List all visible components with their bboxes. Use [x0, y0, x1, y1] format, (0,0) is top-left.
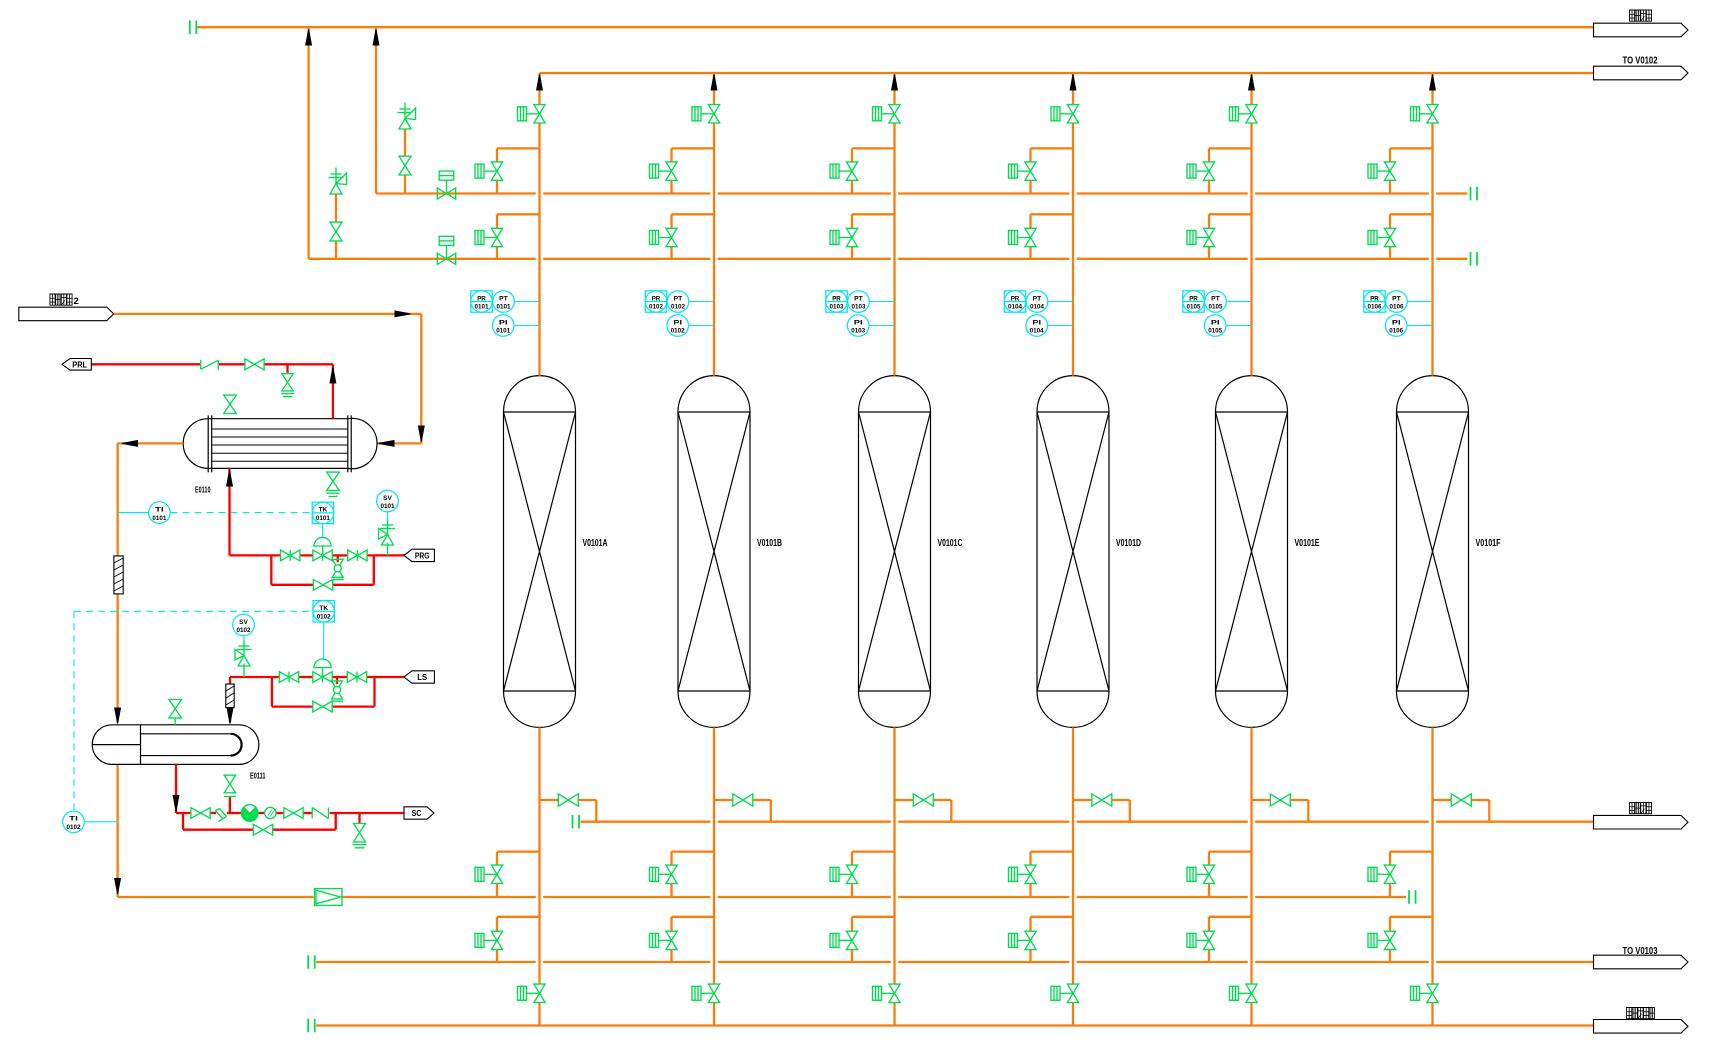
vent stub on PRL line: [286, 364, 288, 373]
svg-text:PR: PR: [1189, 295, 1198, 302]
check valve on PRL line: [200, 360, 202, 370]
vent branch valve vessel E: [1252, 799, 1271, 801]
flange end header2: [1470, 252, 1472, 265]
adsorber vessel V0101C: [859, 376, 931, 728]
pressure recorder PR 0106: [1364, 291, 1385, 312]
flow arrow into E0110: [227, 471, 233, 487]
heat exchanger E0111 shell: [112, 725, 239, 765]
program valve KV0105A (riser): [1230, 107, 1239, 121]
program valve KV0104A (riser): [1051, 107, 1060, 121]
instrument connection TK0101 to valve: [322, 524, 324, 537]
flow arrow into E0111: [227, 708, 233, 724]
valve SC-1: [191, 808, 201, 819]
branch to header1 vessel F: [1390, 147, 1433, 149]
adsorber vessel V0101E: [1216, 376, 1288, 728]
branch to header1 vessel B: [672, 147, 715, 149]
svg-text:0102: 0102: [317, 614, 331, 621]
vent riser from header2: [307, 27, 309, 259]
branch to feed header vessel E: [1209, 850, 1252, 852]
flow arrow down: [173, 796, 179, 812]
svg-text:PR: PR: [1011, 295, 1020, 302]
check valve SC: [311, 808, 313, 819]
downcomer vessel B: [713, 727, 715, 984]
svg-text:LS: LS: [417, 672, 427, 682]
svg-text:0106: 0106: [1368, 304, 1382, 311]
pressure indicator PI 0101: [514, 325, 540, 327]
pressure indicator PI 0103: [869, 325, 895, 327]
TO V0102 product header: [540, 72, 1594, 74]
program valve KV0102F (vacuum): [692, 986, 701, 1000]
pressure transmitter PT 0103: [869, 301, 894, 303]
riser pipe vessel F: [1431, 73, 1433, 105]
signal line TK0102 (dashed) to TI0102: [74, 610, 313, 612]
steam trap: [241, 805, 258, 822]
svg-text:PT: PT: [1392, 295, 1401, 302]
flow arrow down: [418, 426, 424, 442]
pressure recorder PR 0103: [826, 291, 847, 312]
flow arrow: [115, 879, 121, 895]
program valve KV0104F (vacuum): [1051, 986, 1060, 1000]
downcomer vessel A: [538, 727, 540, 984]
svg-text:TO V0103: TO V0103: [1623, 945, 1658, 957]
svg-text:V0101A: V0101A: [583, 538, 608, 549]
flag 自空分塔2 (feed from air separation): [19, 307, 114, 321]
svg-text:PT: PT: [674, 295, 683, 302]
svg-text:0105: 0105: [1209, 304, 1223, 311]
isolation valve on PRL line: [245, 359, 255, 370]
sample valve on PRG line: [337, 555, 339, 562]
PSV stub on header1: [404, 129, 406, 156]
valve LS-2: [347, 672, 357, 683]
svg-text:0103: 0103: [852, 304, 866, 311]
svg-text:PI: PI: [673, 319, 682, 326]
svg-text:0105: 0105: [1187, 304, 1201, 311]
branch to feed header vessel A: [497, 850, 540, 852]
controller TK 0101: [312, 502, 333, 523]
vent branch valve vessel A: [540, 799, 559, 801]
controller TK 0102: [313, 601, 334, 622]
PRG line: [230, 554, 281, 556]
sample valve on LS line: [336, 677, 338, 684]
program valve KV0104C: [1009, 231, 1018, 245]
branch to V0103 header vessel D: [1031, 916, 1074, 918]
svg-text:0102: 0102: [671, 304, 685, 311]
flag TO V0102: [1594, 66, 1689, 80]
inline strainer on downline: [114, 556, 123, 594]
vent riser from header1: [375, 27, 377, 193]
vent stub with valve above SC line: [229, 797, 231, 813]
branch to feed header vessel C: [852, 850, 895, 852]
svg-text:E0110: E0110: [195, 485, 211, 495]
svg-text:0101: 0101: [475, 304, 489, 311]
feed line to E0110: [114, 313, 422, 315]
svg-text:PRL: PRL: [72, 359, 87, 369]
branch to header2 vessel C: [852, 213, 895, 215]
program valve KV0102C: [650, 231, 659, 245]
flow arrow: [122, 441, 138, 447]
vacuum return header: [307, 1019, 309, 1033]
vent branch valve vessel B: [714, 799, 733, 801]
svg-text:PI: PI: [1032, 319, 1041, 326]
flow arrow up: [306, 30, 312, 46]
svg-text:PI: PI: [854, 319, 863, 326]
program valve KV0105F (vacuum): [1230, 986, 1239, 1000]
inline strainer on LS drop: [226, 684, 234, 708]
SC condensate line: [176, 812, 191, 814]
valve LS-1: [279, 672, 289, 683]
svg-text:SV: SV: [239, 619, 248, 626]
program valve KV0102B: [650, 164, 659, 178]
svg-text:TK: TK: [319, 605, 328, 612]
E0110 vent valve (top): [224, 395, 237, 404]
svg-text:0104: 0104: [1030, 304, 1044, 311]
program valve KV0101C: [475, 231, 484, 245]
pressure recorder PR 0102: [645, 291, 666, 312]
pressure transmitter PT 0101: [514, 301, 539, 303]
bypass valve LS: [313, 701, 323, 712]
pressure transmitter PT 0105: [1226, 301, 1251, 303]
program valve KV0105D: [1187, 867, 1196, 881]
branch to feed header vessel F: [1390, 850, 1433, 852]
pressure recorder PR 0101: [471, 291, 492, 312]
branch to header2 vessel A: [497, 213, 540, 215]
relief valve SV0102 stub: [243, 664, 245, 678]
E0111 vent valve top: [169, 700, 182, 709]
E0111 tubesheet: [140, 725, 142, 765]
svg-text:0104: 0104: [1008, 304, 1022, 311]
svg-text:PR: PR: [1370, 295, 1379, 302]
temperature control valve TV0101: [313, 550, 323, 561]
program valve KV0103E: [830, 933, 839, 947]
riser pipe vessel A: [538, 73, 540, 105]
svg-text:0103: 0103: [851, 328, 865, 335]
program valve KV0103D: [830, 867, 839, 881]
svg-text:PR: PR: [477, 295, 486, 302]
signal to SV bubble: [243, 636, 245, 642]
equalization header 2: [309, 258, 536, 260]
program valve KV0105C: [1187, 231, 1196, 245]
branch to header2 vessel F: [1390, 213, 1433, 215]
equalization header 1: [376, 192, 536, 194]
temperature indicator TI 0101: [149, 502, 171, 524]
program valve KV0103B: [830, 164, 839, 178]
branch to V0103 header vessel F: [1390, 916, 1433, 918]
downcomer vessel F: [1431, 727, 1433, 984]
flag SC: [404, 807, 434, 819]
svg-text:0104: 0104: [1030, 328, 1044, 335]
branch to feed header vessel B: [672, 850, 715, 852]
svg-text:PR: PR: [652, 295, 661, 302]
svg-text:TO V0102: TO V0102: [1623, 55, 1658, 67]
flag PRL: [62, 359, 91, 371]
program valve KV0105E: [1187, 933, 1196, 947]
TI0101 tap line: [118, 512, 149, 514]
valve PRG-1: [281, 550, 291, 561]
branch to V0103 header vessel E: [1209, 916, 1252, 918]
pressure indicator PI 0102: [689, 325, 715, 327]
branch to V0103 header vessel B: [672, 916, 715, 918]
E0111 U-tube bundle: [141, 734, 242, 756]
flow arrow to V0102 header: [1249, 75, 1255, 91]
flag LS: [404, 671, 434, 683]
program valve KV0103F (vacuum): [873, 986, 882, 1000]
svg-text:PT: PT: [1033, 295, 1042, 302]
branch to feed header vessel D: [1031, 850, 1074, 852]
svg-text:0103: 0103: [830, 304, 844, 311]
svg-text:0102: 0102: [237, 627, 251, 634]
svg-text:E0111: E0111: [250, 771, 266, 781]
svg-text:PRG: PRG: [415, 550, 430, 560]
flag PRG: [404, 549, 434, 561]
isolation valve under PSV-2: [330, 222, 342, 231]
adsorber vessel V0101B: [678, 376, 750, 728]
top waste-gas vent header (to 废气排空): [189, 20, 191, 34]
svg-text:0101: 0101: [497, 304, 511, 311]
svg-text:0106: 0106: [1390, 304, 1404, 311]
pressure transmitter PT 0106: [1407, 301, 1432, 303]
bypass valve PRG: [313, 579, 323, 590]
feed header from E0111: [118, 896, 314, 898]
adsorber vessel V0101F: [1397, 376, 1469, 728]
svg-text:SV: SV: [383, 495, 392, 502]
flow arrow up: [373, 30, 379, 46]
svg-text:PI: PI: [1392, 319, 1401, 326]
relief valve PSV-1: [399, 119, 411, 130]
riser pipe vessel E: [1250, 73, 1252, 105]
E0110 tubesheets: [207, 415, 209, 472]
PRG bypass: [270, 555, 272, 584]
program valve KV0103A (riser): [873, 107, 882, 121]
controller TK 0102 connection: [323, 622, 325, 659]
svg-text:PR: PR: [832, 295, 841, 302]
branch to header1 vessel C: [852, 147, 895, 149]
branch to V0103 header vessel C: [852, 916, 895, 918]
svg-text:PT: PT: [854, 295, 863, 302]
pressure indicator PI 0106: [1407, 325, 1433, 327]
PSV stub on header2: [335, 194, 337, 222]
header2 manual valve HV-2: [437, 253, 446, 264]
SC drain branch: [358, 813, 360, 824]
E0110 shell outlet (orange) to left: [118, 442, 184, 444]
program valve KV0104E: [1009, 933, 1018, 947]
flange end feed header: [1408, 890, 1410, 904]
svg-text:SC: SC: [412, 808, 422, 818]
flange end header1: [1470, 187, 1472, 201]
flow arrow to V0102 header: [537, 75, 543, 91]
isolation valve under PSV-1: [399, 156, 411, 165]
vent branch valve vessel C: [895, 799, 914, 801]
pressure indicator PI 0104: [1048, 325, 1074, 327]
svg-text:TK: TK: [319, 507, 328, 514]
downcomer vessel D: [1072, 727, 1074, 984]
PRG red riser to E0110 bottom: [228, 468, 230, 555]
program valve KV0104D: [1009, 867, 1018, 881]
relief valve SV0101 stub: [387, 543, 389, 556]
E0111 condensate outlet: [175, 764, 177, 813]
pressure transmitter PT 0104: [1048, 301, 1073, 303]
waste-gas vent header bottom: [572, 815, 574, 829]
program valve KV0103C: [830, 231, 839, 245]
program valve KV0106C: [1368, 231, 1377, 245]
program valve KV0106E: [1368, 933, 1377, 947]
svg-text:0102: 0102: [649, 304, 663, 311]
TO V0103 header: [307, 955, 309, 969]
svg-text:PT: PT: [499, 295, 508, 302]
svg-text:0101: 0101: [381, 503, 395, 510]
svg-text:0101: 0101: [496, 328, 510, 335]
svg-text:V0101F: V0101F: [1476, 538, 1501, 549]
downcomer vessel C: [893, 727, 895, 984]
vent branch valve vessel D: [1073, 799, 1092, 801]
LS bypass: [271, 677, 273, 707]
signal to SV bubble: [387, 512, 389, 522]
valve PRG-2: [348, 550, 358, 561]
flow arrow to V0102 header: [892, 75, 898, 91]
E0111 shell outlet down to feed header: [116, 764, 118, 897]
SC bypass: [182, 813, 184, 830]
program valve KV0106B: [1368, 164, 1377, 178]
safety valve bubble SV 0101: [377, 490, 399, 512]
flow arrow to V0102 header: [711, 75, 717, 91]
E0110 tube-side inlet: [378, 442, 422, 444]
riser pipe vessel B: [713, 73, 715, 105]
svg-text:V0101C: V0101C: [938, 538, 963, 549]
riser pipe vessel C: [893, 73, 895, 105]
branch to header1 vessel E: [1209, 147, 1252, 149]
program valve KV0102E: [650, 933, 659, 947]
valve SC-2: [284, 808, 294, 819]
program valve KV0101D: [475, 867, 484, 881]
svg-text:0102: 0102: [67, 824, 81, 831]
signal line TI0101-TK0101 (dashed): [171, 512, 313, 514]
E0110 drain valve (bottom right): [327, 472, 340, 481]
svg-text:PT: PT: [1211, 295, 1220, 302]
feed drop to E0110 inlet: [420, 314, 422, 444]
LS steam line: [367, 676, 405, 678]
cold feed downline x=117.6: [116, 443, 118, 555]
program valve KV0101B: [475, 164, 484, 178]
vent branch valve vessel F: [1433, 799, 1452, 801]
branch to header2 vessel E: [1209, 213, 1252, 215]
adsorber vessel V0101D: [1037, 376, 1109, 728]
PRL line: [264, 363, 333, 365]
temperature indicator TI 0102: [63, 811, 85, 833]
program valve KV0106D: [1368, 867, 1377, 881]
program valve KV0102A (riser): [692, 107, 701, 121]
program valve KV0102D: [650, 867, 659, 881]
svg-text:0101: 0101: [316, 515, 330, 522]
flag 返至抽真空: [1594, 1020, 1689, 1034]
bypass valve SC: [253, 824, 263, 835]
flag TO V0103: [1594, 955, 1689, 969]
temperature control valve TV0102: [313, 672, 323, 683]
safety valve bubble SV 0102: [233, 614, 255, 636]
flow arrow into E0111: [115, 708, 121, 724]
svg-text:TI: TI: [69, 816, 78, 823]
TI0102 tap line: [84, 821, 117, 823]
branch to header2 vessel D: [1031, 213, 1074, 215]
Y-strainer: [216, 811, 223, 819]
branch to header1 vessel D: [1031, 147, 1074, 149]
pressure recorder PR 0105: [1183, 291, 1204, 312]
E0110 tubes: [212, 428, 348, 430]
branch to header2 vessel B: [672, 213, 715, 215]
pressure transmitter PT 0102: [689, 301, 714, 303]
pressure indicator PI 0105: [1226, 325, 1252, 327]
flag 废气排空 top-right: [1594, 23, 1689, 37]
red line E0110 top outlet: [332, 364, 334, 418]
E0111 head partition: [92, 744, 140, 746]
svg-text:0106: 0106: [1389, 328, 1403, 335]
svg-text:0101: 0101: [152, 515, 166, 522]
program valve KV0104B: [1009, 164, 1018, 178]
LS drop into E0111: [229, 677, 231, 684]
pressure recorder PR 0104: [1004, 291, 1025, 312]
program valve KV0106A (riser): [1411, 107, 1420, 121]
heat exchanger E0110 shell: [208, 419, 348, 469]
flow arrow into E0110: [379, 441, 395, 447]
relief valve PSV-2: [330, 184, 342, 195]
inline reducer/filter on feed header: [315, 889, 343, 906]
svg-text:PI: PI: [499, 319, 508, 326]
svg-text:V0101D: V0101D: [1116, 538, 1141, 549]
program valve KV0101F (vacuum): [518, 986, 527, 1000]
flow arrow feed: [395, 311, 411, 317]
svg-text:V0101E: V0101E: [1295, 538, 1320, 549]
riser pipe vessel D: [1072, 73, 1074, 105]
branch to header1 vessel A: [497, 147, 540, 149]
downcomer vessel E: [1250, 727, 1252, 984]
svg-text:0102: 0102: [671, 328, 685, 335]
svg-text:PI: PI: [1211, 319, 1220, 326]
svg-text:0105: 0105: [1208, 328, 1222, 335]
program valve KV0105B: [1187, 164, 1196, 178]
header1 manual valve HV-1: [437, 188, 446, 199]
flow arrow to V0102 header: [1430, 75, 1436, 91]
flow arrow up: [330, 368, 336, 384]
svg-text:2: 2: [74, 296, 79, 307]
program valve KV0101A (riser): [518, 107, 527, 121]
svg-text:TI: TI: [155, 506, 164, 513]
sight glass: [265, 807, 276, 818]
svg-text:V0101B: V0101B: [757, 538, 782, 549]
branch to V0103 header vessel A: [497, 916, 540, 918]
adsorber vessel V0101A: [504, 376, 576, 728]
program valve KV0101E: [475, 933, 484, 947]
program valve KV0106F (vacuum): [1411, 986, 1420, 1000]
flag 废气排空 bottom-right: [1594, 815, 1689, 829]
flow arrow to V0102 header: [1070, 75, 1076, 91]
